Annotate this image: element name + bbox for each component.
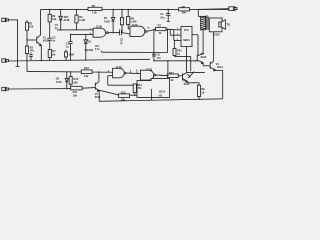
svg-text:R12: R12 bbox=[84, 66, 89, 70]
svg-text:C4: C4 bbox=[160, 12, 164, 16]
svg-text:2.4M: 2.4M bbox=[79, 18, 85, 22]
svg-text:9013: 9013 bbox=[184, 82, 190, 86]
svg-text:R9: R9 bbox=[201, 87, 205, 91]
svg-text:4148: 4148 bbox=[64, 18, 70, 22]
svg-text:R11: R11 bbox=[73, 90, 78, 94]
svg-text:1.0M: 1.0M bbox=[131, 20, 137, 24]
svg-text:V3: V3 bbox=[216, 62, 220, 66]
svg-text:10k: 10k bbox=[121, 97, 126, 101]
svg-text:D4: D4 bbox=[104, 16, 108, 20]
svg-text:10k: 10k bbox=[84, 74, 89, 78]
svg-text:H3: H3 bbox=[159, 93, 163, 97]
svg-text:17n: 17n bbox=[95, 47, 100, 51]
svg-text:R13: R13 bbox=[121, 91, 126, 95]
svg-text:C5 1n: C5 1n bbox=[120, 38, 124, 45]
svg-text:PQ14B: PQ14B bbox=[85, 48, 94, 52]
svg-text:IC1B: IC1B bbox=[146, 67, 152, 71]
svg-text:47k: 47k bbox=[137, 86, 142, 90]
svg-text:6/12V: 6/12V bbox=[213, 33, 220, 37]
svg-text:1n: 1n bbox=[52, 39, 55, 43]
svg-text:10k: 10k bbox=[73, 93, 78, 97]
svg-text:V5: V5 bbox=[95, 92, 99, 96]
svg-text:IC1B: IC1B bbox=[96, 25, 102, 29]
svg-text:9013: 9013 bbox=[43, 39, 49, 43]
svg-text:10M: 10M bbox=[69, 53, 74, 57]
svg-text:9013: 9013 bbox=[95, 95, 101, 99]
svg-text:V4: V4 bbox=[182, 79, 186, 83]
svg-text:D3: D3 bbox=[56, 77, 60, 81]
svg-text:TB: TB bbox=[226, 22, 230, 26]
svg-text:10k: 10k bbox=[51, 52, 56, 56]
svg-text:17n: 17n bbox=[157, 56, 162, 60]
svg-text:IC1A: IC1A bbox=[116, 65, 122, 69]
svg-text:30k: 30k bbox=[73, 80, 78, 84]
svg-text:10k: 10k bbox=[29, 25, 34, 29]
svg-text:IC3: IC3 bbox=[184, 28, 189, 32]
svg-text:12CA: 12CA bbox=[159, 89, 166, 93]
svg-text:200: 200 bbox=[182, 11, 187, 15]
svg-text:4148: 4148 bbox=[56, 80, 62, 84]
svg-text:R5: R5 bbox=[92, 4, 96, 8]
svg-text:1.0k: 1.0k bbox=[92, 11, 98, 15]
svg-text:10k: 10k bbox=[52, 17, 57, 21]
svg-text:R8: R8 bbox=[182, 5, 186, 9]
svg-text:1n: 1n bbox=[55, 26, 58, 30]
svg-text:C8: C8 bbox=[157, 52, 161, 56]
svg-text:47k: 47k bbox=[30, 49, 35, 53]
svg-text:9013: 9013 bbox=[201, 55, 207, 59]
svg-text:R10: R10 bbox=[73, 77, 78, 81]
svg-text:9013: 9013 bbox=[217, 65, 223, 69]
svg-text:9964: 9964 bbox=[183, 38, 190, 42]
svg-text:4148: 4148 bbox=[104, 19, 110, 23]
svg-text:D2: D2 bbox=[88, 40, 92, 44]
svg-text:1u: 1u bbox=[66, 45, 69, 49]
svg-text:R7: R7 bbox=[158, 24, 162, 28]
svg-text:R15: R15 bbox=[169, 71, 174, 75]
svg-text:10u: 10u bbox=[160, 15, 165, 19]
